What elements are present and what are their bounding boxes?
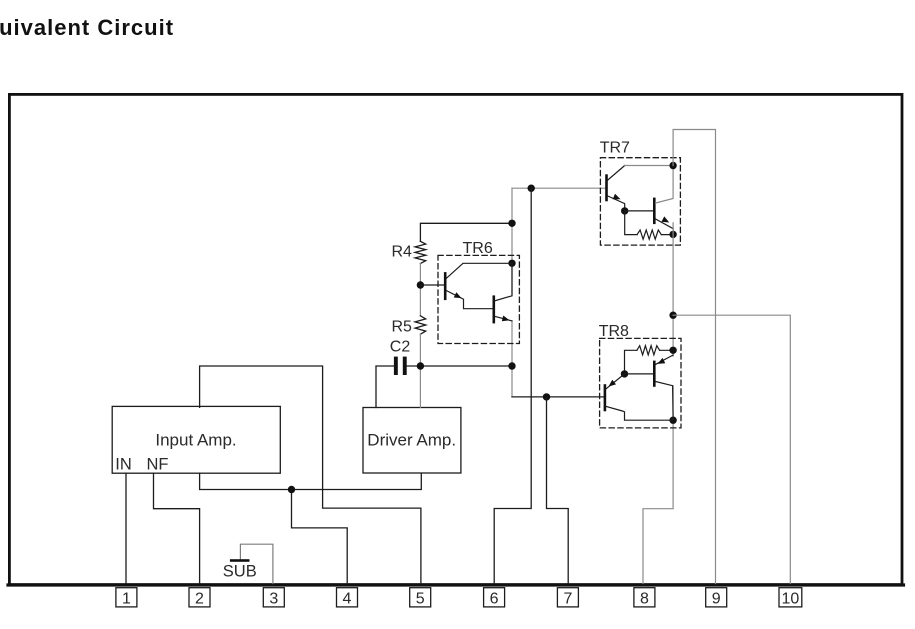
wire Input Amp top loop to pin5 <box>200 366 421 584</box>
svg-text:2: 2 <box>195 590 204 607</box>
capacitor C2 <box>394 357 398 375</box>
svg-text:TR6: TR6 <box>463 240 493 257</box>
svg-text:R5: R5 <box>392 319 413 336</box>
svg-text:5: 5 <box>416 590 425 607</box>
wire TR7 top to pin9 rail <box>673 130 715 584</box>
TR8 Q1 emitter <box>606 374 624 389</box>
wire R5 bottom to C2 node <box>419 334 421 366</box>
svg-text:R4: R4 <box>392 244 413 261</box>
node C2/R5 junction <box>417 362 424 369</box>
wire C2 right node row <box>407 365 512 367</box>
wire Input Amp bottom to Driver Amp bottom <box>200 473 422 489</box>
node junction bottom <box>288 486 295 493</box>
pin box 9 <box>706 588 727 607</box>
svg-text:8: 8 <box>640 590 649 607</box>
wire IN to pin1 <box>125 473 127 583</box>
node TR7 bottom <box>669 231 676 238</box>
TR6 Q2 collector <box>495 263 512 300</box>
node TR7 interstage <box>621 207 628 214</box>
svg-text:TR8: TR8 <box>599 323 629 340</box>
TR8 Q2 emitter <box>656 355 674 364</box>
TR8 Q2 emitter arrow <box>658 358 666 364</box>
pin box 4 <box>337 588 358 607</box>
wire TR6 base feed <box>420 284 444 286</box>
pin box 5 <box>410 588 431 607</box>
resistor R5 <box>415 316 426 334</box>
TR6 Q1 emitter <box>447 291 493 309</box>
TR7 Q1 emitter arrow <box>613 194 621 200</box>
wire TR8 Q2 base link <box>625 373 654 375</box>
TR8 Q1 collector <box>606 407 673 421</box>
wire node to Driver Amp top <box>419 366 421 408</box>
svg-text:IN: IN <box>115 455 132 473</box>
node TR8 interstage <box>621 370 628 377</box>
pin box 2 <box>189 588 210 607</box>
TR8 Q1 base bar <box>604 384 607 411</box>
node right rail / pin10 branch <box>669 312 676 319</box>
svg-text:9: 9 <box>712 590 721 607</box>
pin box 3 <box>263 588 284 607</box>
TR7 Q2 emitter <box>656 219 674 234</box>
Driver Amp box U2 <box>363 408 461 474</box>
wire R4 bottom to R5 top <box>419 264 421 316</box>
wire NF to pin2 <box>154 473 200 583</box>
TR8 Q2 collector <box>656 382 674 421</box>
TR6 Q1 base bar <box>444 272 447 300</box>
node TR6 collector <box>508 260 515 267</box>
TR7 Q2 base bar <box>653 198 656 225</box>
wire junction to pin6 <box>494 188 531 583</box>
TR6 Q1 collector <box>447 263 513 278</box>
wire TR8 collector to pin8 <box>643 386 673 584</box>
pin box 10 <box>779 588 802 607</box>
TR6 dashed box <box>438 255 519 343</box>
wire right rail mid segment <box>672 223 674 356</box>
TR6 Q2 emitter <box>495 316 512 321</box>
SUB ground bar <box>230 559 250 562</box>
TR8 Q1 emitter arrow <box>609 380 617 387</box>
wire branch to pin4 <box>292 490 348 584</box>
TR7 Q2 emitter arrow <box>661 216 669 222</box>
wire junction to pin7 <box>547 397 569 584</box>
node TR8 bottom <box>669 417 676 424</box>
TR8 resistor <box>637 346 660 355</box>
pin box 6 <box>484 588 505 607</box>
wire TR7 Q2 base link <box>625 210 653 212</box>
svg-text:Input Amp.: Input Amp. <box>155 431 236 450</box>
title <box>0 15 174 41</box>
TR7 Q1 base bar <box>605 174 608 201</box>
pin box 8 <box>634 588 655 607</box>
svg-text:SUB: SUB <box>223 563 257 581</box>
wire rail x512 lower segment to TR8 base corner <box>511 321 513 397</box>
svg-text:TR7: TR7 <box>600 140 630 157</box>
node C2 row / rail <box>508 362 515 369</box>
TR6 Q2 emitter arrow <box>502 316 510 322</box>
svg-text:4: 4 <box>343 590 352 607</box>
TR7 dashed box <box>600 158 680 245</box>
TR7 resistor leads <box>625 211 673 235</box>
svg-text:6: 6 <box>490 590 499 607</box>
TR6 Q1 emitter arrow <box>454 292 462 298</box>
TR7 Q2 collector <box>656 166 674 204</box>
svg-text:10: 10 <box>782 590 800 607</box>
node TR8 top <box>669 347 676 354</box>
pin box 1 <box>116 588 137 607</box>
wire C2 left to Driver Amp top <box>376 366 394 408</box>
TR8 Q2 base bar <box>653 361 656 387</box>
svg-text:1: 1 <box>122 590 131 607</box>
TR8 dashed box <box>600 338 681 428</box>
node TR8 base line junction <box>543 393 550 400</box>
TR6 Q2 base bar <box>493 295 496 323</box>
node R4/R5 junction <box>417 281 424 288</box>
svg-text:C2: C2 <box>390 338 411 355</box>
Input Amp box U1 <box>112 406 280 473</box>
pin box 7 <box>557 588 578 607</box>
svg-text:Driver Amp.: Driver Amp. <box>367 431 456 450</box>
outer border frame <box>9 94 902 584</box>
SUB ground loop wire to pin3 <box>240 544 273 583</box>
wire R4 top to rail <box>420 223 512 241</box>
TR8 resistor leads <box>625 350 674 374</box>
node TR7 top <box>669 162 676 169</box>
svg-text:NF: NF <box>147 455 169 473</box>
wire TR7 base feed <box>512 187 605 189</box>
svg-text:7: 7 <box>563 590 572 607</box>
svg-text:3: 3 <box>269 590 278 607</box>
TR7 resistor <box>637 230 661 239</box>
bottom rail <box>8 583 904 586</box>
TR7 collector top wire <box>625 165 673 167</box>
TR7 Q1 emitter <box>608 196 625 211</box>
wire branch to pin10 <box>673 315 790 583</box>
wire TR8 base feed <box>512 396 604 398</box>
resistor R4 <box>415 241 426 263</box>
node TR7 base line junction <box>528 185 535 192</box>
wire rail x512 upper segment <box>511 188 513 296</box>
node rail/R4 wire <box>508 220 515 227</box>
TR7 Q1 collector <box>608 166 625 181</box>
